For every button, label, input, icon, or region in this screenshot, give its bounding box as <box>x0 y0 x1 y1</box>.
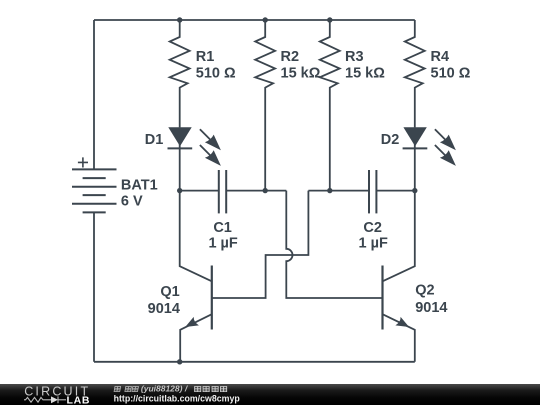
logo schematic motif (resistor + diode) <box>24 396 66 403</box>
svg-text:510 Ω: 510 Ω <box>431 65 471 81</box>
svg-text:R2: R2 <box>281 49 300 65</box>
svg-text:R4: R4 <box>431 49 450 65</box>
svg-text:15 kΩ: 15 kΩ <box>345 65 385 81</box>
wire battery negative lead <box>93 212 95 361</box>
resistor R2 <box>255 20 275 191</box>
LED D2 <box>403 127 456 190</box>
svg-text:(yui88128) /: (yui88128) / <box>141 384 189 394</box>
transistor Q1 <box>180 191 212 362</box>
node dot Q1 emitter <box>177 359 182 364</box>
wire C2 right to D2 node <box>376 190 414 192</box>
wire Q1 base to R3/C2 node <box>212 191 309 298</box>
svg-text:D2: D2 <box>381 132 400 148</box>
svg-text:C2: C2 <box>363 220 382 236</box>
LED D1 <box>168 127 221 190</box>
svg-text:BAT1: BAT1 <box>121 177 158 193</box>
CircuitLab logo wordmark <box>24 385 90 405</box>
resistor R4 <box>405 20 425 127</box>
node dot D1/C1/Q1 collector <box>177 188 182 193</box>
node dot R1 top <box>177 17 182 22</box>
svg-text:R1: R1 <box>196 49 215 65</box>
node dot R3 bottom <box>327 188 332 193</box>
svg-text:Q2: Q2 <box>415 283 434 299</box>
svg-text:C1: C1 <box>213 220 232 236</box>
svg-text:9014: 9014 <box>148 301 180 317</box>
node dot R3 top <box>327 17 332 22</box>
svg-text:D1: D1 <box>145 132 164 148</box>
wire bottom rail <box>94 361 415 363</box>
resistor R1 <box>170 20 190 127</box>
wire battery positive lead <box>93 20 95 169</box>
svg-text:510 Ω: 510 Ω <box>196 65 236 81</box>
capacitor C2 <box>369 170 376 213</box>
svg-text:1 µF: 1 µF <box>208 236 237 252</box>
svg-text:http://circuitlab.com/cw8cmyp: http://circuitlab.com/cw8cmyp <box>114 394 241 404</box>
capacitor C1 <box>219 170 226 213</box>
svg-text:Q1: Q1 <box>160 284 179 300</box>
node dot R2 bottom <box>263 188 268 193</box>
svg-text:15 kΩ: 15 kΩ <box>281 65 321 81</box>
svg-text:LAB: LAB <box>67 394 91 405</box>
wire node A left (D1 cathode to C1) <box>180 190 219 192</box>
wire top rail <box>94 19 415 21</box>
resistor R3 <box>320 20 340 191</box>
footer credit text <box>114 384 241 404</box>
wire C1 right to corner <box>226 190 286 192</box>
svg-text:9014: 9014 <box>415 300 447 316</box>
battery BAT1 <box>72 157 117 212</box>
svg-text:1 µF: 1 µF <box>359 236 388 252</box>
wire C1/R2 node to Q2 base with hop <box>286 191 382 298</box>
svg-text:R3: R3 <box>345 49 364 65</box>
node dot R2 top <box>263 17 268 22</box>
footer bar <box>0 384 540 405</box>
node dot D2/C2/Q2 collector <box>412 188 417 193</box>
wire node B left (to C2) <box>308 190 369 192</box>
svg-text:6 V: 6 V <box>121 194 143 210</box>
transistor Q2 <box>383 191 415 362</box>
